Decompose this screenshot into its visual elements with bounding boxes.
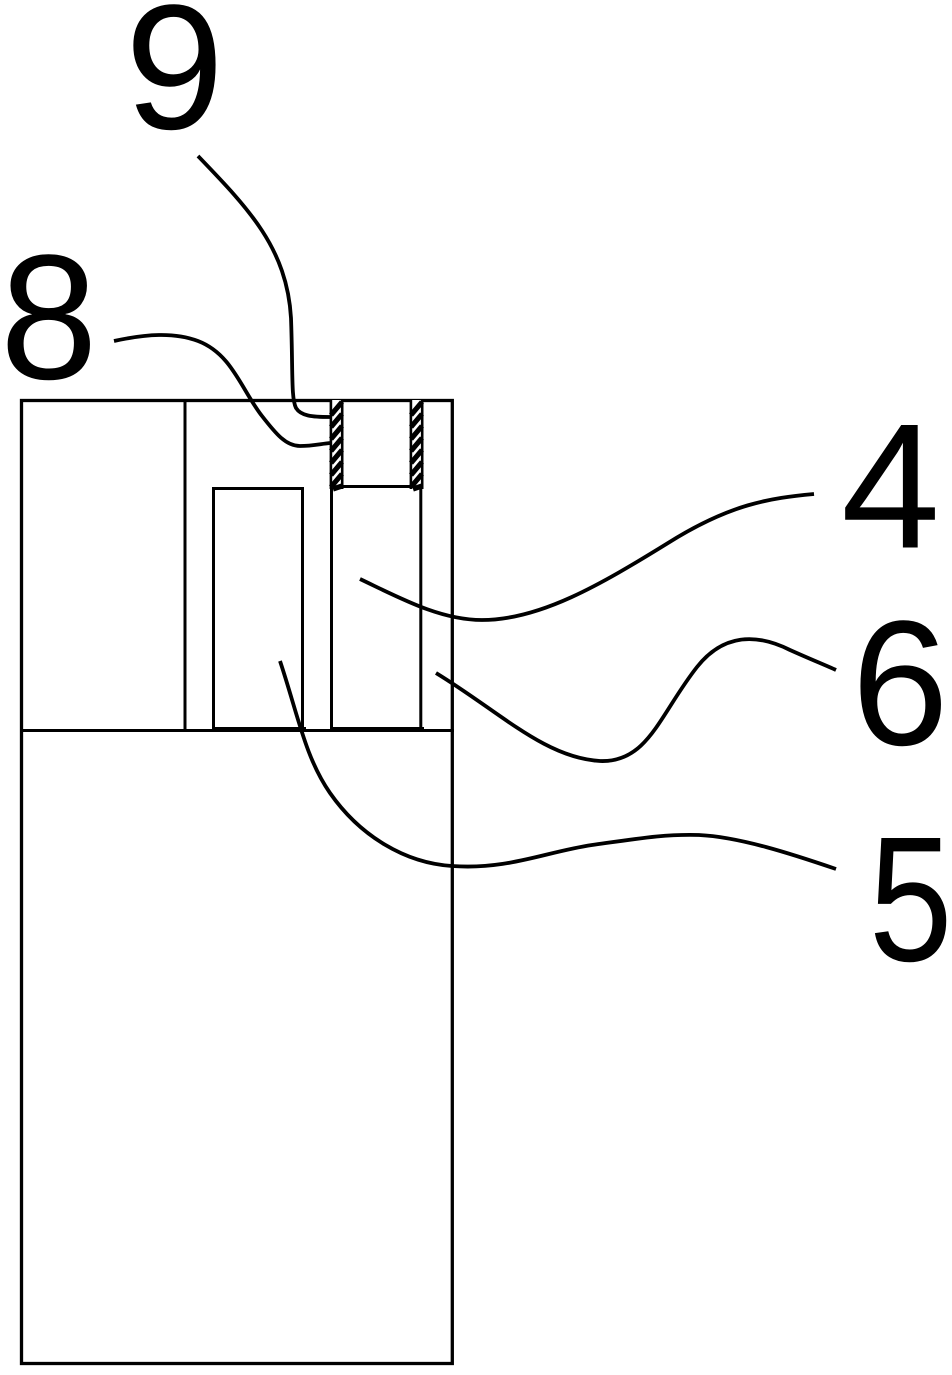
right cavity right wall bbox=[419, 488, 422, 730]
svg-text:5: 5 bbox=[869, 800, 952, 999]
svg-text:8: 8 bbox=[0, 218, 98, 416]
channel bottom line bbox=[332, 485, 422, 488]
right cavity left wall bbox=[330, 488, 333, 730]
hatched seal strip left bbox=[330, 399, 343, 489]
svg-text:6: 6 bbox=[852, 584, 949, 783]
leader line for label 8 bbox=[114, 335, 330, 446]
leader line for label 6 bbox=[436, 639, 836, 761]
svg-text:4: 4 bbox=[841, 387, 940, 586]
inner cavity rectangle (left) bbox=[214, 489, 303, 730]
hatched seal strip right bbox=[410, 399, 423, 489]
svg-text:9: 9 bbox=[125, 0, 224, 167]
horizontal divider line bbox=[20, 729, 454, 732]
leader line for label 4 bbox=[360, 494, 814, 620]
internal vertical partition wall bbox=[184, 400, 187, 730]
leader line for label 9 bbox=[198, 156, 330, 417]
outer housing rectangle bbox=[22, 401, 453, 1364]
leader line for label 5 bbox=[280, 661, 836, 869]
thick base of left cavity bbox=[212, 727, 306, 732]
thick base of right cavity bbox=[330, 727, 424, 732]
